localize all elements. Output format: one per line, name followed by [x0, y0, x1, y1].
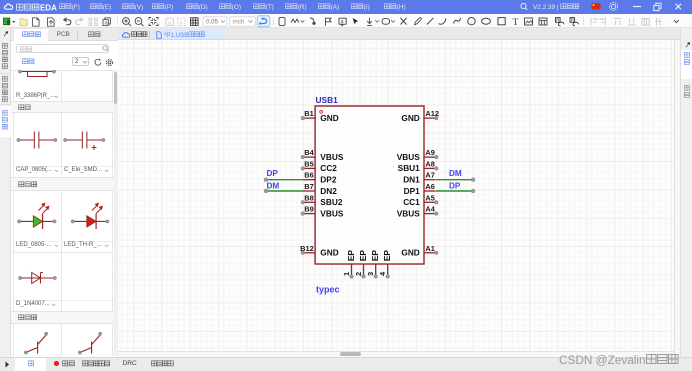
svg-text:(P): (P)	[165, 4, 174, 11]
svg-text:DM: DM	[266, 181, 279, 190]
wire net DP left	[264, 177, 304, 181]
svg-text:DP: DP	[449, 181, 461, 190]
svg-text:(O): (O)	[232, 4, 241, 11]
svg-text:(H): (H)	[397, 4, 406, 11]
pin A9	[396, 148, 437, 162]
svg-text:DN2: DN2	[320, 185, 337, 195]
pin B12	[300, 243, 339, 257]
pin B5	[301, 159, 337, 173]
svg-text:A4: A4	[425, 204, 435, 213]
svg-text:(R): (R)	[297, 4, 306, 11]
svg-text:DN1: DN1	[403, 174, 420, 184]
svg-text:DP2: DP2	[320, 174, 337, 184]
pin A4	[396, 204, 437, 218]
svg-text:EP: EP	[382, 249, 392, 261]
LED LED_TH-R red preview	[73, 203, 108, 229]
svg-text:DP: DP	[266, 168, 278, 177]
svg-text:B9: B9	[304, 204, 313, 213]
body	[315, 106, 424, 264]
svg-text:B6: B6	[304, 170, 313, 179]
svg-text:DM: DM	[449, 168, 462, 177]
svg-text:GND: GND	[320, 112, 338, 122]
origin marker	[319, 110, 322, 113]
pin B4	[301, 148, 344, 162]
svg-text:V2.2.39 |: V2.2.39 |	[533, 4, 559, 11]
svg-text:SBU2: SBU2	[320, 197, 343, 207]
svg-text:VBUS: VBUS	[396, 208, 420, 218]
capacitor CAP_0805 preview	[19, 132, 56, 149]
pin A12	[401, 109, 439, 123]
svg-text:typec: typec	[316, 284, 340, 294]
svg-text:A7: A7	[425, 170, 434, 179]
svg-text:A6: A6	[425, 182, 434, 191]
pin A1	[401, 243, 438, 257]
svg-text:GND: GND	[320, 247, 338, 257]
svg-text:EDA: EDA	[39, 3, 56, 12]
svg-text:CC1: CC1	[403, 197, 420, 207]
capacitor C_Ele_SMD preview	[65, 132, 103, 151]
svg-text:EP: EP	[358, 249, 368, 261]
svg-text:1: 1	[342, 271, 351, 275]
pin B8	[301, 193, 343, 207]
transistor preview 1	[26, 335, 46, 354]
pin B9	[301, 204, 344, 218]
pin A8	[397, 159, 437, 173]
svg-text:B12: B12	[300, 243, 314, 252]
svg-text:B7: B7	[304, 182, 313, 191]
svg-text:0.05: 0.05	[206, 18, 219, 25]
svg-text:a: a	[341, 18, 344, 24]
diode D_1N4007 preview	[20, 273, 55, 284]
svg-text:EP: EP	[346, 249, 356, 261]
svg-text:(A): (A)	[331, 4, 340, 11]
svg-text:GND: GND	[401, 247, 419, 257]
svg-text:(E): (E)	[102, 4, 111, 11]
svg-text:inch: inch	[233, 18, 245, 25]
svg-text:(D): (D)	[199, 4, 208, 11]
svg-text:DP1: DP1	[403, 185, 420, 195]
pin A7	[403, 170, 435, 184]
svg-text:(F): (F)	[71, 4, 79, 11]
svg-text:CC2: CC2	[320, 163, 337, 173]
wire net DM right	[436, 177, 475, 181]
svg-text:*P1.USB: *P1.USB	[164, 32, 188, 39]
pin EP2	[354, 249, 368, 278]
svg-text:VBUS: VBUS	[320, 151, 344, 161]
svg-text:CSDN @Zevalin: CSDN @Zevalin	[559, 354, 646, 367]
pin B1	[301, 109, 339, 123]
svg-text:EP: EP	[370, 249, 380, 261]
svg-text:A9: A9	[425, 148, 434, 157]
svg-text:USB1: USB1	[315, 95, 338, 105]
svg-text:SBU1: SBU1	[397, 163, 420, 173]
wire net DM left	[264, 189, 304, 193]
svg-text:A1: A1	[425, 243, 434, 252]
svg-text:B8: B8	[304, 193, 313, 202]
LED LED_0805 green preview	[19, 203, 54, 229]
svg-text:B4: B4	[304, 148, 314, 157]
svg-text:A8: A8	[425, 159, 434, 168]
pin EP4	[378, 249, 392, 278]
pin B7	[303, 182, 337, 196]
svg-text:(T): (T)	[265, 4, 273, 11]
svg-text:A12: A12	[425, 109, 439, 118]
svg-text:VBUS: VBUS	[396, 151, 420, 161]
svg-text:GND: GND	[401, 112, 419, 122]
pin A5	[403, 193, 438, 207]
pin B6	[303, 170, 336, 184]
svg-text:(I): (I)	[363, 4, 369, 11]
svg-text:B5: B5	[304, 159, 313, 168]
svg-text:T: T	[513, 18, 519, 28]
pin A6	[403, 182, 435, 196]
transistor preview 2	[80, 335, 100, 354]
svg-text:(V): (V)	[134, 4, 143, 11]
svg-text:B1: B1	[304, 109, 313, 118]
svg-text:3: 3	[366, 271, 375, 275]
resistor R_3386P preview	[20, 72, 54, 77]
pin EP1	[342, 249, 356, 278]
svg-text:2: 2	[354, 271, 363, 275]
svg-text:A5: A5	[425, 193, 434, 202]
wire net DP right	[436, 189, 475, 193]
svg-text:VBUS: VBUS	[320, 208, 344, 218]
connector USB1	[315, 106, 424, 264]
pin EP3	[366, 249, 380, 278]
